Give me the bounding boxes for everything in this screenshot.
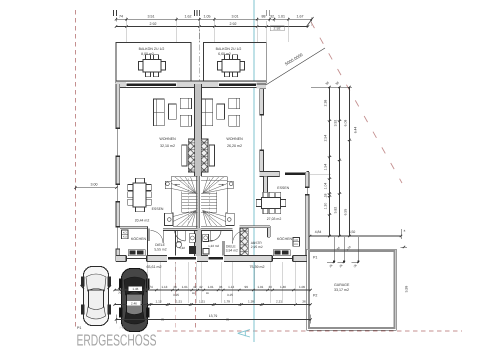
svg-text:1.67: 1.67 (297, 14, 304, 18)
svg-text:75,39 m2: 75,39 m2 (250, 265, 265, 269)
svg-text:1.09: 1.09 (299, 285, 305, 289)
svg-text:36: 36 (219, 285, 223, 289)
svg-text:13,79: 13,79 (209, 314, 218, 318)
svg-text:6.44: 6.44 (353, 127, 357, 134)
svg-text:1.46: 1.46 (280, 285, 286, 289)
svg-text:KOCHEN: KOCHEN (277, 237, 292, 241)
svg-text:1.38: 1.38 (248, 300, 254, 304)
svg-text:4,84: 4,84 (315, 230, 322, 234)
svg-text:WC: WC (177, 240, 182, 244)
svg-text:36: 36 (173, 285, 177, 289)
svg-text:2.46: 2.46 (131, 302, 137, 306)
svg-text:36: 36 (268, 285, 272, 289)
svg-text:2,95 m2: 2,95 m2 (251, 245, 263, 249)
svg-text:1.01: 1.01 (208, 285, 214, 289)
svg-text:KOCHEN: KOCHEN (131, 237, 146, 241)
svg-text:2.92: 2.92 (230, 22, 237, 26)
svg-text:BALKON ZU 1/2: BALKON ZU 1/2 (216, 47, 242, 51)
svg-text:1.51: 1.51 (176, 300, 182, 304)
svg-text:1.54: 1.54 (324, 164, 328, 171)
svg-text:KO: KO (123, 231, 127, 234)
svg-text:3.01: 3.01 (232, 14, 239, 18)
svg-text:WOHNEN: WOHNEN (159, 137, 176, 141)
svg-text:32: 32 (270, 14, 274, 18)
svg-text:42: 42 (193, 285, 197, 289)
svg-text:ESSEN: ESSEN (152, 207, 164, 211)
svg-text:1.01: 1.01 (182, 285, 188, 289)
svg-text:3.51: 3.51 (148, 14, 155, 18)
svg-text:1.04: 1.04 (324, 183, 328, 190)
svg-text:88: 88 (262, 14, 266, 18)
svg-text:1.13: 1.13 (228, 285, 234, 289)
svg-text:32,10 m2: 32,10 m2 (160, 144, 175, 148)
svg-text:ERDGESCHOSS: ERDGESCHOSS (77, 333, 157, 350)
svg-text:36: 36 (161, 318, 165, 322)
svg-text:1,22 m2: 1,22 m2 (208, 244, 219, 248)
svg-text:3.92: 3.92 (334, 120, 338, 127)
svg-text:BALKON ZU 1/2: BALKON ZU 1/2 (139, 47, 165, 51)
svg-text:3.25: 3.25 (227, 293, 233, 297)
svg-text:P2: P2 (120, 326, 124, 330)
svg-text:74: 74 (149, 285, 153, 289)
svg-text:74: 74 (118, 291, 122, 295)
svg-text:33,17 m2: 33,17 m2 (334, 288, 349, 292)
svg-text:KU: KU (123, 236, 127, 239)
svg-text:36: 36 (226, 318, 230, 322)
svg-text:20,44 m2: 20,44 m2 (135, 218, 150, 222)
svg-text:2.54: 2.54 (324, 135, 328, 142)
svg-text:P2: P2 (313, 294, 317, 298)
svg-text:1.05: 1.05 (204, 14, 211, 18)
svg-text:1.78: 1.78 (224, 300, 230, 304)
svg-text:6,50: 6,50 (349, 230, 356, 234)
svg-text:1.30: 1.30 (324, 203, 328, 210)
svg-text:65,61 m2: 65,61 m2 (147, 265, 162, 269)
svg-text:WOHNEN: WOHNEN (226, 137, 243, 141)
svg-text:ESSEN: ESSEN (277, 186, 289, 190)
svg-text:1.51: 1.51 (199, 300, 205, 304)
svg-text:26,20 m2: 26,20 m2 (227, 144, 242, 148)
svg-text:P1: P1 (77, 326, 81, 330)
svg-text:5,22: 5,22 (179, 246, 185, 250)
svg-text:74: 74 (119, 14, 123, 18)
svg-text:3.00: 3.00 (91, 182, 98, 186)
svg-text:6.55: 6.55 (344, 209, 348, 216)
svg-text:5.82: 5.82 (334, 207, 338, 214)
svg-text:1.13: 1.13 (155, 300, 161, 304)
svg-text:.18: .18 (324, 194, 328, 199)
svg-text:3,94 m2: 3,94 m2 (226, 249, 238, 253)
svg-text:GARAGE: GARAGE (334, 283, 350, 287)
svg-text:1.46: 1.46 (132, 287, 138, 291)
svg-text:KO: KO (294, 239, 298, 242)
svg-text:6.08: 6.08 (344, 120, 348, 127)
svg-text:2.38: 2.38 (324, 100, 328, 107)
svg-text:1.01: 1.01 (257, 285, 263, 289)
svg-text:2.92: 2.92 (150, 22, 157, 26)
svg-text:WC: WC (208, 239, 213, 243)
svg-text:2.92: 2.92 (274, 27, 281, 31)
svg-text:1.01: 1.01 (278, 14, 285, 18)
svg-text:3.25: 3.25 (173, 293, 179, 297)
svg-text:42: 42 (199, 285, 203, 289)
svg-text:5,55 m2: 5,55 m2 (154, 247, 166, 251)
svg-text:KU: KU (294, 243, 298, 246)
svg-text:1.62: 1.62 (185, 14, 192, 18)
svg-text:5,99: 5,99 (405, 286, 409, 293)
svg-text:P1: P1 (313, 256, 317, 260)
svg-text:1.13: 1.13 (161, 285, 167, 289)
svg-text:99: 99 (244, 285, 248, 289)
svg-text:36: 36 (302, 300, 306, 304)
svg-text:27,03 m2: 27,03 m2 (267, 217, 282, 221)
svg-text:2.31: 2.31 (276, 300, 282, 304)
